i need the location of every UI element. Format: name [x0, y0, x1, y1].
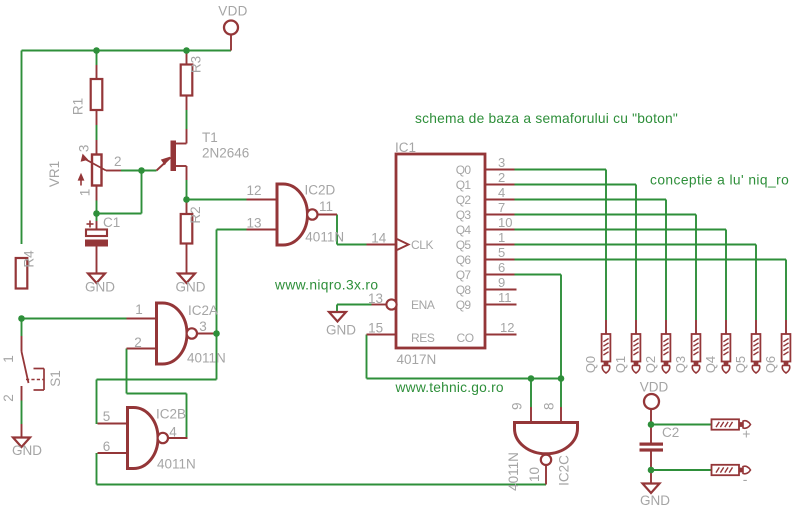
- svg-text:schema de baza a semaforului c: schema de baza a semaforului cu "boton": [415, 111, 678, 126]
- svg-text:1: 1: [135, 302, 143, 317]
- svg-text:5: 5: [498, 245, 505, 260]
- svg-text:S1: S1: [48, 370, 63, 387]
- svg-text:GND: GND: [640, 493, 670, 508]
- svg-text:9: 9: [510, 402, 525, 410]
- svg-text:Q2: Q2: [456, 193, 472, 207]
- svg-text:VDD: VDD: [640, 380, 669, 395]
- svg-text:13: 13: [368, 291, 383, 306]
- svg-text:6: 6: [103, 439, 111, 454]
- svg-text:IC2D: IC2D: [305, 183, 336, 198]
- svg-text:2: 2: [498, 170, 505, 185]
- svg-text:2: 2: [1, 394, 16, 402]
- svg-text:C1: C1: [103, 215, 120, 230]
- svg-text:Q3: Q3: [456, 208, 472, 222]
- svg-text:4011N: 4011N: [157, 457, 196, 472]
- svg-text:8: 8: [542, 402, 557, 410]
- svg-text:3: 3: [498, 155, 505, 170]
- svg-text:Q9: Q9: [456, 298, 472, 312]
- svg-text:9: 9: [498, 275, 505, 290]
- svg-text:15: 15: [368, 321, 383, 336]
- svg-text:Q1: Q1: [613, 356, 628, 373]
- svg-text:7: 7: [498, 200, 505, 215]
- svg-text:IC2C: IC2C: [556, 455, 571, 486]
- svg-text:10: 10: [498, 215, 512, 230]
- svg-text:Q5: Q5: [456, 238, 472, 252]
- svg-text:Q0: Q0: [583, 356, 598, 373]
- svg-text:12: 12: [246, 183, 261, 198]
- svg-text:5: 5: [103, 409, 111, 424]
- svg-text:GND: GND: [326, 323, 356, 338]
- svg-text:GND: GND: [85, 280, 115, 295]
- svg-text:R2: R2: [188, 206, 203, 223]
- svg-text:Q0: Q0: [456, 163, 472, 177]
- svg-text:4017N: 4017N: [397, 352, 437, 367]
- svg-text:GND: GND: [12, 443, 42, 458]
- svg-text:VDD: VDD: [218, 4, 247, 19]
- svg-text:12: 12: [500, 320, 514, 335]
- svg-text:4011N: 4011N: [305, 230, 344, 245]
- svg-text:ENA: ENA: [411, 298, 435, 312]
- svg-text:Q5: Q5: [733, 356, 748, 373]
- svg-text:Q6: Q6: [456, 253, 472, 267]
- svg-text:+: +: [742, 426, 750, 442]
- svg-text:3: 3: [199, 319, 207, 334]
- svg-text:11: 11: [498, 290, 512, 305]
- svg-text:IC2A: IC2A: [188, 303, 218, 318]
- svg-text:conceptie a lu' niq_ro: conceptie a lu' niq_ro: [650, 173, 789, 188]
- svg-text:4: 4: [169, 425, 177, 440]
- svg-text:Q8: Q8: [456, 283, 472, 297]
- svg-text:14: 14: [371, 231, 387, 246]
- svg-text:Q4: Q4: [703, 356, 718, 373]
- svg-text:VR1: VR1: [47, 161, 62, 187]
- svg-text:2N2646: 2N2646: [202, 146, 249, 161]
- svg-text:3: 3: [77, 145, 92, 153]
- svg-text:CLK: CLK: [411, 238, 434, 252]
- svg-text:T1: T1: [202, 130, 218, 145]
- svg-text:4011N: 4011N: [187, 351, 226, 366]
- svg-text:CO: CO: [457, 331, 474, 345]
- svg-text:1: 1: [498, 230, 505, 245]
- svg-text:www.niqro.3x.ro: www.niqro.3x.ro: [274, 278, 378, 293]
- svg-text:R3: R3: [189, 56, 204, 73]
- svg-text:4: 4: [498, 185, 505, 200]
- svg-text:Q3: Q3: [673, 356, 688, 373]
- svg-text:10: 10: [527, 467, 542, 482]
- svg-text:1: 1: [1, 355, 16, 363]
- svg-text:2: 2: [114, 154, 122, 169]
- svg-text:6: 6: [498, 260, 505, 275]
- svg-text:Q4: Q4: [456, 223, 472, 237]
- svg-text:1: 1: [77, 189, 92, 197]
- svg-text:Q6: Q6: [763, 356, 778, 373]
- svg-text:R1: R1: [71, 98, 86, 115]
- svg-text:www.tehnic.go.ro: www.tehnic.go.ro: [395, 380, 504, 395]
- svg-text:Q7: Q7: [456, 268, 472, 282]
- svg-text:Q2: Q2: [643, 356, 658, 373]
- svg-text:13: 13: [246, 216, 261, 231]
- svg-text:11: 11: [319, 199, 333, 214]
- svg-text:4011N: 4011N: [506, 452, 521, 491]
- svg-text:Q1: Q1: [456, 178, 472, 192]
- svg-text:2: 2: [134, 335, 142, 350]
- svg-text:GND: GND: [176, 280, 206, 295]
- svg-text:C2: C2: [662, 425, 679, 440]
- svg-text:-: -: [743, 471, 748, 487]
- svg-text:IC1: IC1: [395, 140, 416, 155]
- svg-text:RES: RES: [411, 331, 435, 345]
- svg-text:R4: R4: [22, 250, 37, 268]
- svg-text:IC2B: IC2B: [156, 407, 186, 422]
